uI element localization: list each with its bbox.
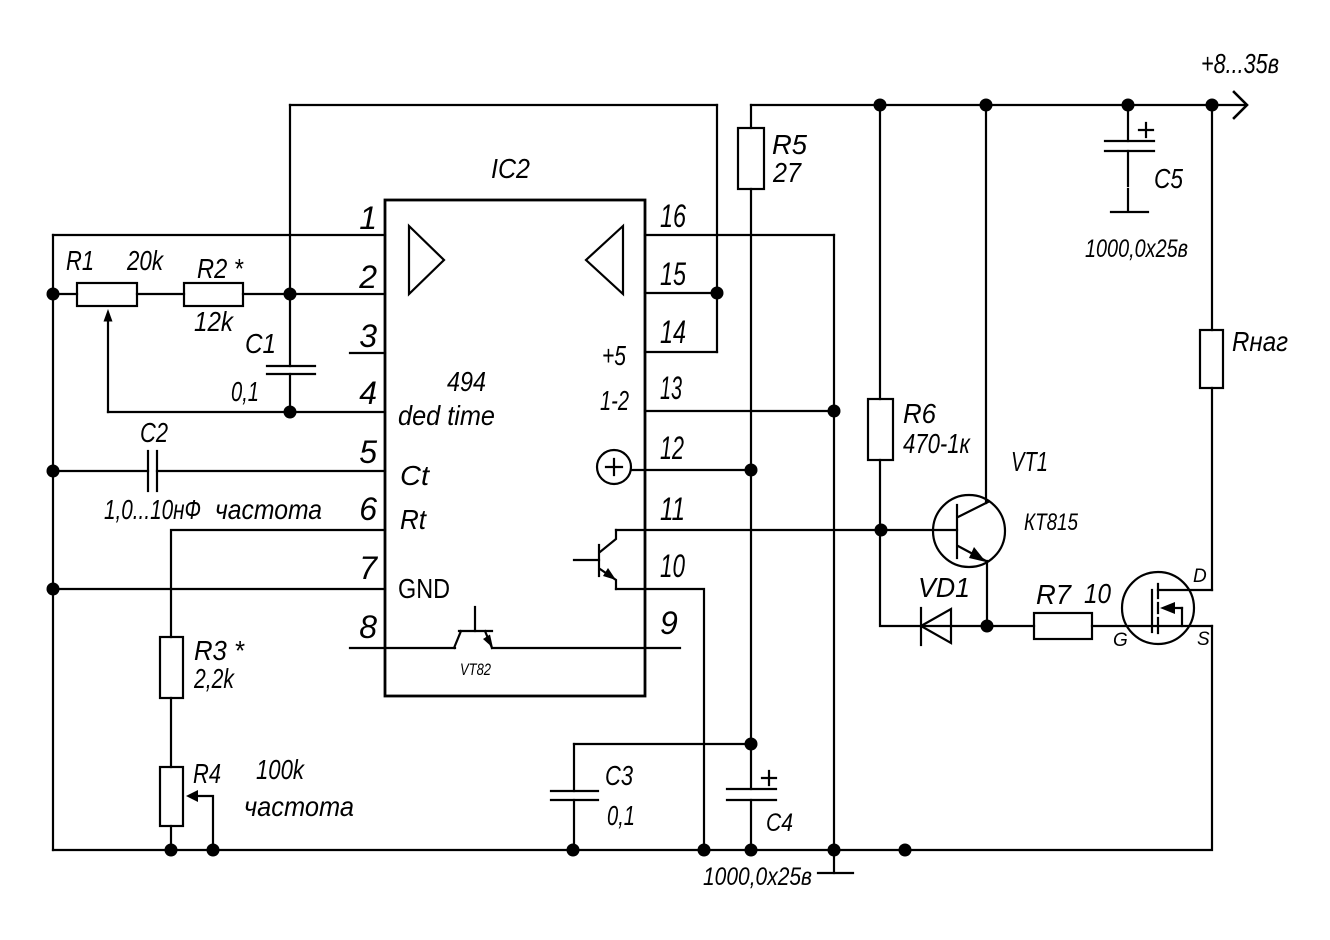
svg-text:R3 *: R3 * (194, 635, 245, 666)
svg-text:1000,0x25в: 1000,0x25в (703, 863, 812, 891)
transistor internal output Q (574, 559, 599, 561)
node pin13 junction (828, 405, 841, 418)
node rail R6 (874, 99, 887, 112)
node rail Rnag (1206, 99, 1219, 112)
svg-text:100k: 100k (256, 754, 306, 785)
ground (833, 850, 835, 873)
node left rail R1 (47, 288, 60, 301)
resistor R6 (879, 105, 881, 399)
svg-text:494: 494 (447, 366, 486, 397)
svg-text:C1: C1 (245, 328, 276, 359)
svg-text:R2 *: R2 * (197, 253, 244, 284)
wire MOSFET drain up (1211, 388, 1213, 590)
svg-text:20k: 20k (126, 245, 164, 276)
svg-text:8: 8 (359, 609, 377, 645)
supply arrow (1234, 92, 1247, 118)
svg-text:10: 10 (1084, 578, 1111, 609)
svg-text:G: G (1113, 630, 1128, 651)
resistor R3 (160, 637, 183, 698)
wire pin 12 (631, 469, 751, 471)
svg-text:C3: C3 (605, 760, 633, 791)
wire pin 3 stub (350, 352, 385, 354)
svg-text:R7: R7 (1036, 579, 1072, 610)
node pin12 junction (745, 464, 758, 477)
wire pin 7 GND (53, 588, 385, 590)
transistor VT1 (933, 495, 1005, 567)
svg-text:12k: 12k (194, 306, 235, 337)
svg-text:C5: C5 (1154, 163, 1183, 194)
svg-text:VT1: VT1 (1011, 446, 1048, 477)
svg-text:5: 5 (359, 434, 377, 470)
svg-text:11: 11 (660, 491, 685, 527)
capacitor C4 (750, 744, 752, 789)
wire pin 11 to VT1 base (616, 529, 957, 531)
svg-text:R1: R1 (66, 245, 94, 276)
svg-text:КТ815: КТ815 (1024, 509, 1079, 536)
wire vertical to pins 14/15 (716, 105, 718, 352)
wire pin 14 (645, 351, 717, 353)
svg-text:частота: частота (244, 791, 354, 822)
wire pin 10 to C3/C4 rail (616, 589, 704, 850)
svg-text:2,2k: 2,2k (193, 663, 235, 694)
svg-text:3: 3 (359, 318, 377, 354)
node left rail GND (47, 583, 60, 596)
svg-text:D: D (1193, 566, 1207, 587)
resistor Rnag (1200, 330, 1223, 388)
svg-text:частота: частота (215, 494, 322, 525)
op-amp buffer triangle left (409, 226, 444, 294)
node left rail C2 (47, 465, 60, 478)
svg-text:+8...35в: +8...35в (1201, 48, 1279, 79)
svg-text:2: 2 (358, 259, 377, 295)
diode VD1 (920, 608, 922, 645)
capacitor C3 (574, 743, 751, 745)
svg-text:GND: GND (398, 573, 450, 604)
svg-text:0,1: 0,1 (607, 800, 635, 831)
wire pin 4 (290, 411, 385, 413)
svg-text:1-2: 1-2 (600, 385, 629, 416)
svg-text:Rt: Rt (400, 504, 427, 535)
wire left rail (52, 235, 54, 850)
node rail C5 (1122, 99, 1135, 112)
svg-text:S: S (1197, 629, 1210, 650)
transistor VT82 internal (454, 631, 461, 648)
node rail VT1 (980, 99, 993, 112)
wire pin 15 (645, 292, 717, 294)
wire R1 wiper to pin4 (108, 411, 290, 413)
svg-text:13: 13 (660, 370, 682, 406)
IC2 body (385, 200, 645, 696)
wire pin 16 (645, 234, 834, 236)
svg-text:4: 4 (359, 375, 377, 411)
node pin4 junction (284, 406, 297, 419)
MOSFET VT2 (1122, 572, 1194, 644)
svg-text:ded time: ded time (398, 400, 495, 431)
svg-text:VT82: VT82 (460, 660, 491, 679)
svg-text:Ct: Ct (400, 460, 430, 491)
svg-text:16: 16 (660, 198, 686, 234)
resistor R7 (987, 625, 1034, 627)
svg-text:7: 7 (359, 550, 378, 586)
op-amp buffer triangle right (586, 226, 623, 294)
svg-text:470-1к: 470-1к (903, 428, 971, 459)
svg-text:R4: R4 (193, 758, 221, 789)
wire MOSFET source down and bottom rail (53, 626, 1212, 850)
svg-text:1000,0x25в: 1000,0x25в (1085, 235, 1188, 263)
node bottom C3 (567, 844, 580, 857)
potentiometer R4 (160, 767, 183, 826)
svg-text:Rнаг: Rнаг (1232, 326, 1288, 357)
resistor R2 (184, 283, 243, 306)
node C4 bottom (745, 844, 758, 857)
node bottom extra (899, 844, 912, 857)
svg-text:9: 9 (660, 605, 678, 641)
svg-text:VD1: VD1 (918, 572, 970, 603)
wire top-left rail (290, 104, 717, 106)
node base junction R6 (875, 524, 888, 537)
node VD1 R7 emitter junction (981, 620, 994, 633)
wire pin 6 to R3 (171, 530, 385, 637)
svg-text:12: 12 (660, 430, 684, 466)
resistor R5 (750, 105, 752, 128)
node bottom pin10 net (698, 844, 711, 857)
svg-text:+5: +5 (602, 340, 626, 371)
svg-text:R5: R5 (772, 129, 807, 160)
svg-text:10: 10 (660, 548, 685, 584)
node C3/C4 junction (745, 738, 758, 751)
capacitor C5 (1127, 105, 1129, 141)
wire pin 13 (645, 410, 834, 412)
svg-text:1,0...10нФ: 1,0...10нФ (104, 494, 201, 525)
wire R6 to VD1 (880, 530, 987, 626)
svg-text:0,1: 0,1 (231, 376, 259, 407)
node bottom ground (828, 844, 841, 857)
wire pin 9 (492, 647, 680, 649)
node R4 bottom (165, 844, 178, 857)
node R4 wiper bottom (207, 844, 220, 857)
wire R5 net down to C4 (750, 470, 752, 744)
potentiometer R1 (53, 293, 77, 295)
svg-text:IC2: IC2 (491, 153, 530, 184)
svg-text:R6: R6 (903, 398, 936, 429)
node pin15 junction (711, 287, 724, 300)
svg-text:1: 1 (359, 200, 377, 236)
svg-text:14: 14 (660, 314, 686, 350)
svg-text:27: 27 (772, 157, 802, 188)
svg-text:C4: C4 (766, 809, 793, 837)
wire pin 1 (53, 234, 385, 236)
capacitor C2 (53, 470, 148, 472)
wire vertical net pin16 to ground rail (833, 235, 835, 850)
wire pin 8 (350, 647, 455, 649)
svg-text:15: 15 (660, 256, 686, 292)
svg-text:C2: C2 (140, 417, 168, 448)
wire top supply rail (751, 104, 1246, 106)
reference circle plus (597, 450, 631, 484)
node pin2 junction (284, 288, 297, 301)
capacitor C1 (289, 105, 291, 366)
svg-text:6: 6 (359, 491, 377, 527)
